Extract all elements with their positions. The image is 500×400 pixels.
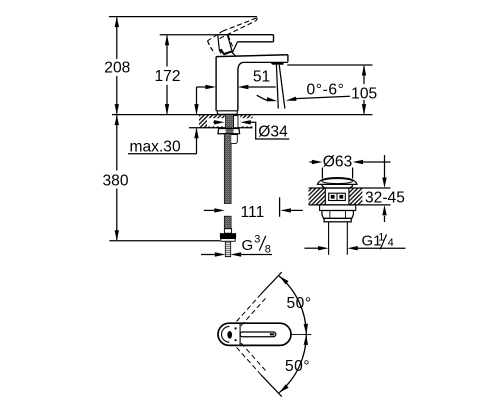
lever blade bottom edge xyxy=(238,41,274,43)
svg-text:4: 4 xyxy=(388,237,394,249)
spout bottom edge xyxy=(284,61,288,63)
32-45 arrow down xyxy=(382,178,386,189)
dimension 208 line upper xyxy=(116,18,118,60)
label G3/8 slash xyxy=(259,236,266,251)
dia63 dim right line xyxy=(363,161,390,163)
G3/8 arrow left xyxy=(231,252,242,256)
dimension 208 line lower xyxy=(116,76,118,114)
shank tailpiece xyxy=(234,116,239,128)
top view capsule outline xyxy=(218,323,291,345)
deck hatching right xyxy=(240,115,252,128)
swivel upper solid line xyxy=(261,272,282,294)
dia63 arrow right xyxy=(312,160,323,164)
dia63 extension line left xyxy=(321,168,323,179)
drain slot divider xyxy=(336,193,338,200)
spout underside curve into body xyxy=(238,62,243,110)
drain locknut facet right xyxy=(345,211,347,219)
extension line top of handle (208 ref) xyxy=(109,16,257,18)
handle neck right edge xyxy=(233,42,238,53)
drain deck hatch left xyxy=(309,188,326,205)
swivel upper dashed line B xyxy=(241,298,266,326)
deck hatching left xyxy=(199,115,225,128)
dimension 380 line lower xyxy=(116,189,118,240)
dimension 208 arrow up xyxy=(115,17,119,28)
dimension 51 arrow left xyxy=(238,85,249,89)
dimension 111 left line xyxy=(204,209,215,211)
max.30 arrow down xyxy=(194,104,198,115)
32-45 arrow up xyxy=(382,205,386,216)
drain locknut facet left xyxy=(329,211,331,219)
svg-text:max.30: max.30 xyxy=(130,138,181,155)
hose braid upper xyxy=(224,134,231,204)
dia63 dim left line xyxy=(310,161,313,163)
swivel upper dashed line A xyxy=(237,294,262,322)
0-6deg right arrow xyxy=(286,97,297,101)
drain dome top lens xyxy=(322,179,353,184)
drain tube left edge xyxy=(328,222,330,255)
water stream line 6deg xyxy=(279,65,285,109)
dimension 172 line lower xyxy=(166,85,168,114)
drain deck hatch right xyxy=(349,188,363,205)
max.30 arrow up xyxy=(194,128,198,139)
drain collar xyxy=(324,218,351,221)
threaded shank xyxy=(226,115,234,128)
dimension 380 arrow down xyxy=(115,230,119,241)
swivel arc lower xyxy=(279,334,306,392)
dimension 51 right line xyxy=(248,86,275,88)
svg-text:111: 111 xyxy=(241,204,265,221)
swivel arc upper xyxy=(279,276,306,334)
drain neck xyxy=(322,184,352,188)
drain washer xyxy=(320,205,356,211)
top view center line xyxy=(291,333,311,335)
hose thread tip xyxy=(225,241,230,256)
G1-1/4 dim right line xyxy=(358,247,406,249)
drain body in deck xyxy=(324,188,326,205)
extension line hose end (380 ref) xyxy=(109,240,219,242)
handle neck left edge xyxy=(218,35,221,54)
dimension 380 line upper xyxy=(116,116,118,171)
mounting deck top surface line xyxy=(112,114,373,116)
lever blade right edge xyxy=(273,35,275,42)
drain slot mark left xyxy=(331,195,335,199)
spout right edge xyxy=(287,55,289,62)
raised lever dashed top line xyxy=(223,18,258,32)
drain tube right edge xyxy=(346,222,348,255)
spout bottom edge left of aerator xyxy=(243,61,273,63)
drain slot window xyxy=(329,193,346,200)
dia63 extension line right xyxy=(352,168,354,179)
drain dome cap xyxy=(317,178,357,185)
svg-text:0°-6°: 0°-6° xyxy=(307,82,345,99)
max.30 leader underline xyxy=(128,153,197,155)
dimension 105 arrow down xyxy=(362,104,366,115)
top view inner ring arc xyxy=(221,326,229,342)
G3/8 dim left line xyxy=(201,254,215,256)
svg-text:105: 105 xyxy=(351,86,377,103)
dia34 arrow halo right xyxy=(240,118,252,126)
svg-text:380: 380 xyxy=(102,173,128,190)
top view lever slot xyxy=(240,332,276,337)
top view screw dot upper xyxy=(235,327,237,329)
0-6deg left arrow xyxy=(267,97,278,101)
hose braid lower xyxy=(224,216,231,229)
dimension 111 left arrow xyxy=(214,208,225,212)
raised lever dashed bottom line xyxy=(220,21,257,39)
top view screw dot lower xyxy=(235,339,237,341)
svg-text:8: 8 xyxy=(265,243,271,255)
swivel lower dashed line B xyxy=(241,343,266,371)
raised lever tip dash xyxy=(256,18,257,21)
dimension 111 right line xyxy=(291,209,303,211)
water stream line 0deg xyxy=(276,65,278,109)
aerator xyxy=(271,62,284,65)
svg-text:208: 208 xyxy=(104,59,130,76)
drain locknut xyxy=(322,211,354,219)
handle-body gap shadow xyxy=(219,49,232,56)
handle neck facet line xyxy=(227,35,232,52)
G1-1/4 dim left line xyxy=(304,247,318,249)
dimension 172 line upper xyxy=(166,36,168,67)
dia34 line left xyxy=(213,121,214,123)
faucet body top / spout top xyxy=(216,55,288,57)
svg-text:50°: 50° xyxy=(287,295,312,312)
max.30 leader riser xyxy=(196,129,198,154)
svg-text:Ø63: Ø63 xyxy=(323,154,352,171)
dia34 leader xyxy=(250,122,289,139)
mounting nut below deck xyxy=(218,129,240,134)
swivel arc arrow mid-lower xyxy=(304,334,308,345)
raised neck dashed right edge xyxy=(228,36,233,49)
dimension 208 arrow down xyxy=(115,104,119,115)
faucet base plinth xyxy=(217,111,237,115)
0-6deg left leader xyxy=(257,95,268,100)
dia34 arrow left xyxy=(240,120,251,124)
swivel arc arrow mid-upper xyxy=(304,324,308,335)
label G1 slash xyxy=(380,234,386,249)
top view divider line xyxy=(239,323,241,345)
dimension 51 arrow right xyxy=(205,85,216,89)
neck to body joint line xyxy=(232,52,236,56)
dimension 111 right arrow xyxy=(280,208,291,212)
svg-text:172: 172 xyxy=(154,68,180,85)
svg-text:Ø34: Ø34 xyxy=(258,124,288,141)
extension line aerator level (105 ref) xyxy=(287,64,372,66)
swivel arc arrow top xyxy=(279,276,289,284)
raised neck dashed left edge xyxy=(208,41,215,54)
dimension 172 arrow up xyxy=(165,35,169,46)
drain body in deck right xyxy=(348,188,350,205)
faucet body left edge xyxy=(215,57,217,111)
raised neck dashed top edge xyxy=(208,31,223,41)
dimension 172 arrow down xyxy=(165,104,169,115)
deck bottom line xyxy=(189,127,253,129)
0-6deg right leader xyxy=(296,96,351,98)
faucet base bottom line xyxy=(216,110,238,112)
32-45 lower riser xyxy=(384,216,386,222)
hose nut xyxy=(220,233,236,238)
hose ferrule xyxy=(224,229,231,234)
dia34 arrow halo left xyxy=(207,118,225,126)
dimension 105 line upper xyxy=(363,66,365,84)
dimension 51 left line xyxy=(197,86,207,88)
lever blade top edge xyxy=(218,34,274,36)
svg-text:3: 3 xyxy=(254,234,260,246)
hose connector cylinder xyxy=(231,135,237,144)
dia34 arrow right xyxy=(214,120,225,124)
braid through nut xyxy=(226,128,234,134)
svg-text:32-45: 32-45 xyxy=(365,189,405,206)
top view slot mark xyxy=(270,333,275,335)
drain deck bottom line xyxy=(309,204,391,206)
dimension 105 line lower xyxy=(363,100,365,114)
top view handle hole xyxy=(227,331,232,339)
G1-1/4 arrow right xyxy=(318,246,329,250)
swivel lower solid line xyxy=(261,375,282,397)
drain deck top line xyxy=(309,187,391,189)
extension line top of lever (172 ref) xyxy=(160,34,219,36)
drain slot mark right xyxy=(339,195,343,199)
svg-text:50°: 50° xyxy=(285,358,310,375)
dia63 arrow left xyxy=(353,160,364,164)
swivel arc arrow bottom xyxy=(279,384,289,392)
swivel lower dashed line A xyxy=(237,347,262,375)
dimension 380 arrow up xyxy=(115,115,119,126)
32-45 upper riser xyxy=(384,155,386,178)
dimension 105 arrow up xyxy=(362,65,366,76)
svg-text:51: 51 xyxy=(253,69,270,86)
hose nut flange xyxy=(221,239,235,242)
max.30 upper leader xyxy=(196,87,198,114)
G3/8 dim right line xyxy=(241,254,272,256)
G1-1/4 arrow left xyxy=(347,246,358,250)
G3/8 arrow right xyxy=(215,252,226,256)
svg-text:G: G xyxy=(242,237,254,254)
dimension 111 right tick xyxy=(279,197,281,217)
